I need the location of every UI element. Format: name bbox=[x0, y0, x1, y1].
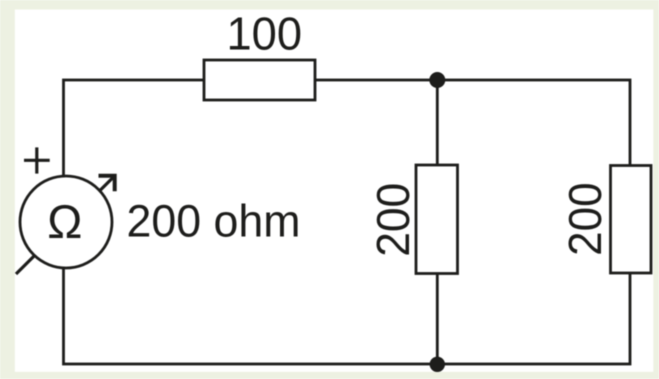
svg-text:200 ohm: 200 ohm bbox=[127, 196, 301, 247]
junction node (top) bbox=[429, 72, 445, 88]
resistor 200 (right) bbox=[611, 166, 652, 274]
ohmmeter circle bbox=[20, 176, 112, 268]
svg-text:200: 200 bbox=[559, 182, 611, 256]
resistor 200 (middle) bbox=[416, 165, 458, 274]
ohmmeter arrow shaft bbox=[16, 178, 113, 275]
wire outer loop bbox=[64, 80, 631, 364]
ohmmeter arrowhead bbox=[99, 176, 115, 192]
plus sign bbox=[24, 147, 50, 173]
svg-text:100: 100 bbox=[227, 8, 303, 60]
svg-text:Ω: Ω bbox=[47, 195, 82, 248]
resistor 100 bbox=[204, 60, 315, 100]
junction node (bottom) bbox=[430, 357, 445, 372]
wire middle branch bbox=[436, 80, 439, 364]
svg-text:200: 200 bbox=[367, 183, 419, 257]
